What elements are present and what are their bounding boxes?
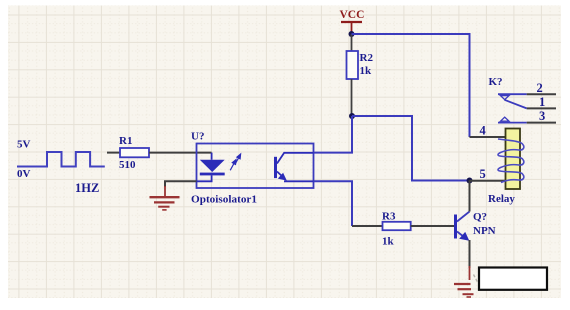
- wire: Q emitter down to ground: [469, 240, 471, 268]
- wire: VCC node down to R2: [351, 34, 353, 51]
- transistor Q? NPN: [454, 212, 470, 241]
- svg-text:Relay: Relay: [488, 193, 515, 205]
- resistor R2: [347, 51, 359, 79]
- LED light emission arrows: [230, 154, 240, 170]
- phototransistor inside optoisolator: [274, 153, 313, 182]
- wire: node to relay pin5: [470, 180, 506, 182]
- svg-text:R2: R2: [360, 52, 374, 64]
- square wave source 5V/0V 1HZ: [17, 152, 105, 167]
- svg-text:4: 4: [480, 124, 487, 138]
- svg-text:NPN: NPN: [473, 225, 496, 237]
- ground (right, below Q): [454, 284, 474, 297]
- resistor R1: [120, 148, 149, 157]
- svg-text:1HZ: 1HZ: [75, 181, 99, 195]
- svg-text:510: 510: [119, 159, 136, 171]
- wire: VCC node to relay pin4 (top run): [352, 34, 470, 137]
- wire: R1 to optoisolator anode: [149, 152, 212, 154]
- wire: R2 to collector node: [351, 79, 353, 116]
- relay contact: pin 2: [498, 93, 527, 95]
- resistor R3: [383, 222, 411, 230]
- op-amp U? optoisolator box: [197, 144, 314, 189]
- junction dot at Q collector node: [467, 178, 473, 184]
- wire: node down-left to opto collector: [313, 116, 352, 153]
- svg-text:0V: 0V: [17, 168, 31, 180]
- watermark cover box: [479, 268, 547, 290]
- wire: opto cathode to ground: [165, 181, 197, 187]
- junction dot at VCC node: [349, 31, 355, 37]
- wire: source to R1: [107, 152, 120, 154]
- wire: opto emitter to R3: [313, 181, 352, 226]
- svg-text:R1: R1: [119, 135, 132, 147]
- svg-text:R3: R3: [382, 211, 396, 223]
- watermark remnant dash: [474, 275, 479, 284]
- svg-text:1k: 1k: [360, 65, 373, 77]
- svg-text:U?: U?: [191, 131, 204, 143]
- relay contact: pin 3: [498, 122, 527, 124]
- svg-text:Optoisolator1: Optoisolator1: [191, 194, 257, 206]
- svg-text:VCC: VCC: [340, 9, 365, 21]
- relay coil winding: [498, 139, 524, 183]
- svg-text:1: 1: [539, 95, 545, 109]
- LED inside optoisolator: [197, 153, 225, 182]
- relay armature to pin 1: [505, 100, 527, 109]
- svg-text:3: 3: [539, 109, 545, 123]
- svg-text:2: 2: [537, 81, 543, 95]
- ground (left, below optoisolator): [150, 186, 180, 210]
- wire: R3 to Q base: [411, 225, 454, 227]
- svg-text:Q?: Q?: [473, 211, 487, 223]
- svg-text:5: 5: [480, 167, 486, 181]
- wire: Q collector up to node: [469, 181, 471, 212]
- svg-text:K?: K?: [489, 76, 503, 88]
- relay coil core: [506, 129, 521, 190]
- svg-text:5V: 5V: [17, 139, 31, 151]
- svg-text:1k: 1k: [382, 236, 395, 248]
- wire: R2 node right and down to Q collector node: [352, 116, 470, 181]
- junction dot at R2 bottom node: [349, 113, 355, 119]
